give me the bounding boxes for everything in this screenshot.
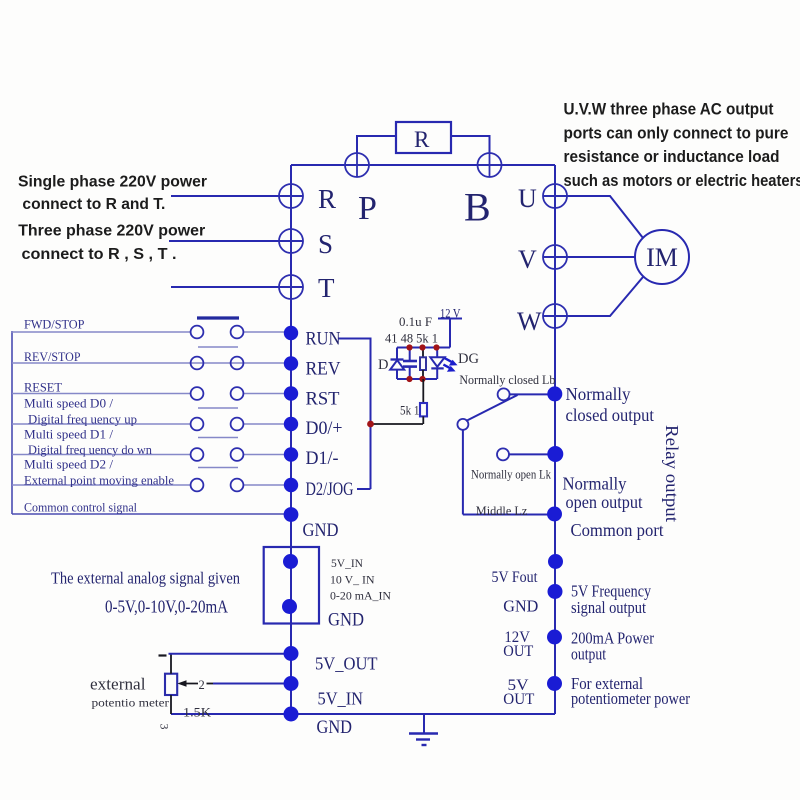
pot wiper wire bbox=[177, 680, 291, 687]
svg-text:Digital freq uency do wn: Digital freq uency do wn bbox=[28, 442, 152, 457]
label 5V Frequency signal output bbox=[571, 582, 652, 618]
node D2 bbox=[284, 478, 298, 492]
label UVW note bbox=[564, 101, 800, 191]
node rail top 1 bbox=[406, 344, 412, 350]
node GND analog bbox=[282, 599, 297, 614]
svg-text:S: S bbox=[318, 229, 333, 259]
svg-text:open output: open output bbox=[566, 492, 643, 512]
svg-text:1.5K: 1.5K bbox=[183, 706, 211, 720]
resistor 5k top bbox=[420, 348, 426, 380]
label 200mA Power output bbox=[571, 629, 654, 664]
analog input block bbox=[264, 547, 319, 624]
svg-text:GND: GND bbox=[503, 597, 538, 616]
wire V to motor bbox=[543, 256, 635, 258]
left common bus wire bbox=[11, 331, 13, 514]
svg-text:External point moving enable: External point moving enable bbox=[24, 473, 174, 488]
terminal W bbox=[543, 304, 567, 328]
node D0 bbox=[284, 417, 298, 431]
svg-text:OUT: OUT bbox=[503, 643, 533, 660]
svg-text:external: external bbox=[90, 675, 146, 694]
svg-text:W: W bbox=[517, 307, 542, 336]
svg-text:The external analog signal giv: The external analog signal given bbox=[51, 569, 240, 588]
top rail wire bbox=[397, 347, 450, 349]
node rail bottom 2 bbox=[419, 376, 425, 382]
wire W to motor bbox=[543, 277, 643, 316]
diode D bbox=[390, 348, 404, 380]
svg-text:GND: GND bbox=[328, 610, 364, 631]
node REV bbox=[284, 356, 298, 370]
braking resistor R bbox=[396, 122, 451, 153]
svg-text:FWD/STOP: FWD/STOP bbox=[24, 317, 85, 332]
terminal B bbox=[478, 153, 502, 177]
svg-text:Normally closed Lb: Normally closed Lb bbox=[459, 372, 555, 387]
node 5V_IN analog bbox=[283, 554, 298, 569]
svg-text:Normally: Normally bbox=[563, 474, 627, 494]
terminal U bbox=[543, 184, 567, 208]
switch D1 bbox=[12, 448, 291, 467]
svg-text:Common port: Common port bbox=[571, 520, 664, 540]
svg-text:D: D bbox=[378, 357, 388, 373]
switch D0 bbox=[12, 418, 291, 438]
pin 1 mark bbox=[159, 654, 167, 656]
wire junction to 5k1 resistor (black) bbox=[370, 423, 424, 425]
svg-text:5V_OUT: 5V_OUT bbox=[315, 654, 378, 674]
relay NO contact bbox=[497, 448, 554, 460]
svg-text:Three phase 220V power: Three phase 220V power bbox=[18, 223, 205, 240]
node RUN bbox=[284, 326, 298, 340]
svg-text:Middle Lz: Middle Lz bbox=[476, 503, 528, 518]
label Normally open output bbox=[563, 474, 643, 513]
resistor 5k 1 bbox=[420, 403, 427, 416]
switch D2/JOG bbox=[12, 479, 291, 492]
svg-text:IM: IM bbox=[646, 243, 678, 272]
svg-text:potentiometer power: potentiometer power bbox=[571, 689, 690, 708]
svg-text:D1/-: D1/- bbox=[306, 448, 339, 469]
svg-text:5V Fout: 5V Fout bbox=[492, 569, 539, 586]
node GND control bbox=[284, 507, 299, 522]
svg-text:Multi speed D0 /: Multi speed D0 / bbox=[24, 396, 113, 411]
svg-text:U.V.W three phase AC output: U.V.W three phase AC output bbox=[564, 101, 774, 119]
terminal R bbox=[171, 184, 303, 208]
node junction D0 loop bbox=[367, 421, 374, 428]
svg-text:5V_IN: 5V_IN bbox=[331, 558, 364, 570]
node 5V OUT bbox=[547, 676, 562, 691]
svg-text:resistance or inductance load: resistance or inductance load bbox=[564, 148, 780, 166]
svg-text:REV/STOP: REV/STOP bbox=[24, 349, 81, 364]
main drive box right edge wire bbox=[554, 165, 556, 714]
switch FWD/STOP bbox=[11, 318, 291, 347]
svg-text:2: 2 bbox=[199, 678, 205, 692]
svg-text:GND: GND bbox=[303, 521, 339, 541]
wire 5k1 to junction (black) bbox=[422, 416, 424, 424]
node 12V OUT bbox=[547, 630, 562, 645]
wire B to braking resistor bbox=[451, 136, 490, 153]
node 5V_OUT bbox=[284, 646, 299, 661]
svg-text:output: output bbox=[571, 645, 606, 664]
svg-text:Normally: Normally bbox=[566, 384, 631, 404]
bottom rail wire bbox=[397, 378, 437, 380]
svg-text:Multi speed D2 /: Multi speed D2 / bbox=[24, 457, 113, 472]
node rail top 3 bbox=[433, 344, 439, 350]
relay NC contact bbox=[498, 388, 554, 400]
main drive box top edge wire bbox=[291, 164, 555, 166]
terminal V bbox=[543, 245, 567, 269]
motor IM bbox=[635, 230, 689, 284]
node 5V Fout bbox=[548, 554, 563, 569]
svg-text:signal output: signal output bbox=[571, 598, 646, 617]
svg-text:Multi speed D1 /: Multi speed D1 / bbox=[24, 427, 113, 442]
node GND bottom bbox=[284, 707, 299, 722]
earth ground bbox=[409, 714, 438, 745]
svg-text:R: R bbox=[414, 127, 430, 152]
bottom ground bus wire bbox=[171, 713, 555, 715]
svg-text:GND: GND bbox=[317, 717, 353, 738]
node 5V_IN pot bbox=[284, 676, 299, 691]
12V power rail symbol bbox=[438, 319, 462, 348]
svg-text:ports can only connect to pure: ports can only connect to pure bbox=[564, 125, 789, 143]
label 12V OUT bbox=[503, 629, 533, 660]
capacitor 0.1uF bbox=[403, 348, 417, 380]
terminal T bbox=[171, 275, 303, 299]
wire rail to 5k1 (black) bbox=[422, 379, 424, 403]
label For external potentiometer power bbox=[571, 674, 690, 708]
node rail bottom 1 bbox=[406, 376, 412, 382]
svg-text:0-20 mA_IN: 0-20 mA_IN bbox=[330, 591, 392, 603]
svg-text:V: V bbox=[518, 245, 537, 274]
switch RESET bbox=[12, 387, 291, 408]
common control signal wire bbox=[12, 513, 291, 515]
svg-text:REV: REV bbox=[306, 359, 341, 380]
node D1 bbox=[284, 447, 298, 461]
node NO output bbox=[547, 446, 563, 462]
terminal S bbox=[169, 229, 303, 253]
svg-text:3: 3 bbox=[158, 724, 172, 730]
svg-text:closed output: closed output bbox=[566, 405, 655, 425]
label Single phase note bbox=[18, 174, 207, 264]
node NC output bbox=[547, 386, 562, 401]
svg-text:Single phase 220V power: Single phase 220V power bbox=[18, 174, 207, 191]
svg-text:10 V_ IN: 10 V_ IN bbox=[330, 575, 375, 587]
svg-text:connect to R and T.: connect to R and T. bbox=[22, 196, 165, 213]
wire P to braking resistor bbox=[357, 136, 396, 153]
wire U to motor bbox=[543, 196, 643, 238]
svg-text:41 48 5k 1: 41 48 5k 1 bbox=[385, 332, 438, 346]
svg-text:D2/JOG: D2/JOG bbox=[306, 479, 354, 500]
svg-text:0-5V,0-10V,0-20mA: 0-5V,0-10V,0-20mA bbox=[105, 597, 228, 617]
svg-text:P: P bbox=[358, 190, 377, 227]
svg-text:connect to R , S , T .: connect to R , S , T . bbox=[22, 246, 177, 263]
svg-text:Normally open Lk: Normally open Lk bbox=[471, 467, 551, 482]
node RST bbox=[284, 386, 298, 400]
svg-text:0.1u F: 0.1u F bbox=[399, 315, 432, 329]
svg-text:U: U bbox=[518, 184, 537, 213]
node common port bbox=[547, 507, 562, 522]
svg-text:RESET: RESET bbox=[24, 380, 62, 395]
svg-text:B: B bbox=[464, 185, 491, 230]
wire RUN to D2/JOG loop bbox=[339, 338, 371, 490]
relay armature bbox=[457, 395, 554, 515]
svg-text:Relay output: Relay output bbox=[662, 425, 682, 522]
svg-text:potentio meter: potentio meter bbox=[92, 698, 170, 710]
node rail top 2 bbox=[419, 344, 425, 350]
svg-text:Digital freq uency up: Digital freq uency up bbox=[28, 412, 137, 427]
svg-text:5V_IN: 5V_IN bbox=[318, 689, 364, 709]
label 5V OUT bbox=[503, 677, 535, 708]
svg-text:such as motors or electric hea: such as motors or electric heaters bbox=[564, 172, 800, 190]
terminal P bbox=[345, 153, 369, 177]
svg-text:RST: RST bbox=[306, 389, 340, 410]
svg-text:RUN: RUN bbox=[306, 329, 341, 350]
potentiometer 1.5K bbox=[165, 654, 291, 714]
switch REV/STOP (closed) bbox=[12, 357, 291, 370]
label Normally closed output bbox=[566, 384, 655, 425]
LED DG bbox=[430, 348, 457, 380]
svg-text:D0/+: D0/+ bbox=[306, 418, 343, 439]
svg-text:DG: DG bbox=[458, 351, 479, 367]
svg-text:5k 1: 5k 1 bbox=[400, 404, 420, 418]
svg-text:Common control signal: Common control signal bbox=[24, 500, 137, 515]
svg-text:R: R bbox=[318, 184, 336, 214]
svg-text:T: T bbox=[318, 273, 335, 303]
svg-text:OUT: OUT bbox=[503, 691, 535, 708]
main drive box left edge wire bbox=[290, 165, 292, 714]
node GND right bbox=[548, 584, 563, 599]
